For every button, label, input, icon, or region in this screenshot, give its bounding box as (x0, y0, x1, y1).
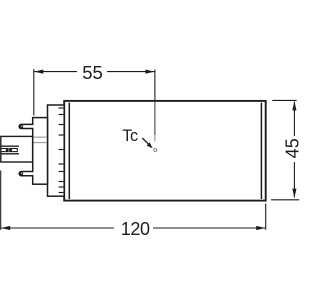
dimension 55 arrowhead left (34, 70, 43, 74)
dimension 55 arrowhead right (145, 70, 154, 74)
tube end highlight line left (68, 103, 70, 199)
dimension 45 extension line top (272, 99, 296, 101)
keyway slot upper line (1, 145, 20, 147)
svg-text:Tc: Tc (122, 127, 138, 145)
dimension 55 extension line left (33, 69, 35, 116)
dimension 45 line (293, 102, 295, 198)
keyway slot lower line (1, 153, 20, 155)
keyway right slot (10, 149, 18, 152)
dimension 120 arrowhead left (1, 226, 10, 230)
svg-text:45: 45 (282, 138, 300, 158)
dimension 45 extension line bottom (271, 199, 299, 201)
dimension 120 arrowhead right (256, 226, 265, 230)
top pin (19, 124, 33, 128)
dimension 55 line (34, 71, 154, 73)
dimension 55 extension line right (to Tc point) (154, 70, 156, 102)
dimension 120 line (1, 227, 265, 229)
dimension 45 arrowhead bottom (292, 189, 296, 198)
dimension 120 extension line left (0, 171, 2, 230)
svg-text:120: 120 (121, 219, 150, 239)
Tc leader arrow (142, 138, 152, 148)
lamp tube body (64, 101, 266, 201)
dimension 45 arrowhead top (292, 101, 296, 110)
keyway left slot (1, 149, 8, 152)
base cap crimp ribs (59, 108, 64, 193)
tube end highlight line right (260, 103, 262, 199)
Tc measuring point circle (154, 149, 157, 152)
dimension 120 extension line right (265, 204, 267, 230)
middle step mould lines (34, 137, 47, 143)
lamp base middle step (33, 118, 48, 185)
base centre post (keyway) (1, 136, 33, 162)
lamp base cap (outer step) (48, 105, 65, 196)
bottom pin (19, 172, 33, 176)
svg-text:55: 55 (82, 62, 103, 83)
